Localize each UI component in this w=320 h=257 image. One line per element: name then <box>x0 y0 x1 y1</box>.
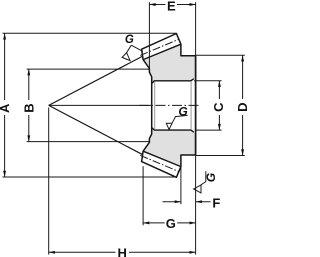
grinding mark G2 leader <box>172 115 188 123</box>
tooth root line bottom <box>143 151 181 166</box>
pitch cone line top <box>49 56 143 105</box>
dimension B extension bottom <box>27 141 150 143</box>
grinding mark G1 leader to tooth <box>131 45 143 51</box>
gear body gray silhouette <box>142 34 196 178</box>
svg-text:G: G <box>125 34 134 46</box>
svg-text:H: H <box>118 245 127 257</box>
grinding mark G3 leader <box>201 171 206 185</box>
tooth pitch line top (dash-dot) <box>140 39 179 55</box>
bore chamfer ring line back <box>190 82 192 130</box>
svg-text:A: A <box>0 103 12 113</box>
dimension C arrows <box>218 81 221 87</box>
pitch cone line bottom <box>49 105 143 154</box>
grinding mark G1 leader branch <box>127 45 132 52</box>
dimension C extension top <box>194 80 222 82</box>
dimension F line <box>163 201 211 203</box>
dimension E arrows <box>149 3 155 6</box>
dimension B arrows <box>27 69 30 75</box>
dimension C extension bottom <box>196 129 222 131</box>
dimension D line <box>242 55 244 155</box>
grinding mark G1 triangle <box>122 53 130 61</box>
dimension E line <box>149 4 195 6</box>
cone axis line <box>49 104 152 106</box>
dimension G line <box>143 222 196 224</box>
dimension G extension left <box>142 166 144 225</box>
dimension B line <box>28 69 30 142</box>
grinding mark G2 triangle <box>166 123 172 129</box>
dimension A extension bottom <box>3 176 177 178</box>
dimension H line <box>49 251 196 253</box>
gear outline profile <box>142 34 196 178</box>
tooth band white (top) <box>142 34 181 60</box>
dimension A line <box>4 33 6 177</box>
grinding mark G3 triangle <box>194 185 201 193</box>
svg-text:G: G <box>178 104 187 118</box>
bore chamfer ring line front <box>154 82 156 130</box>
svg-text:B: B <box>21 103 36 112</box>
dimension E extension left <box>148 2 150 68</box>
dimension D extension top <box>196 54 245 56</box>
dimension C line <box>218 81 220 130</box>
bore bottom edge with chamfers <box>152 128 194 133</box>
svg-text:D: D <box>235 103 248 112</box>
dimension G arrows <box>143 221 149 224</box>
hub right face line <box>195 56 197 155</box>
svg-text:E: E <box>167 0 176 13</box>
bore top edge with chamfers <box>152 79 194 84</box>
dimension F extension left <box>180 166 182 204</box>
dimension D arrows <box>241 55 244 61</box>
dimension F arrows <box>175 200 181 203</box>
tooth pitch line bottom (dash-dot) <box>140 155 179 171</box>
centerline dash-dot <box>139 104 200 106</box>
svg-text:G: G <box>204 173 218 182</box>
long right extension line (E/F/G/H) <box>195 2 197 254</box>
dimension A extension top <box>3 32 177 34</box>
svg-text:G: G <box>166 216 176 231</box>
dimension B extension top <box>27 68 150 70</box>
svg-text:C: C <box>211 102 226 112</box>
tooth band white (bottom) <box>142 151 181 177</box>
dimension H extension left (apex) <box>48 108 50 255</box>
dimension A arrows <box>3 33 6 39</box>
bore void white <box>152 78 196 134</box>
svg-text:F: F <box>212 195 220 210</box>
dimension D extension bottom <box>196 155 245 157</box>
dimension H arrows <box>49 251 55 254</box>
tooth root line top <box>143 44 181 59</box>
